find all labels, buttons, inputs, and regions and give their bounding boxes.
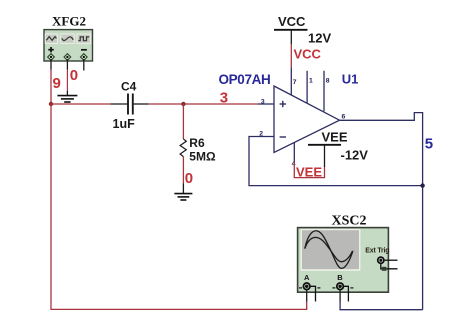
svg-text:U1: U1 [342, 72, 359, 87]
wire: pin 8 stub (blue) [323, 71, 325, 112]
net label VEE (red) [296, 164, 322, 179]
VEE value -12V [341, 148, 369, 163]
net label VCC (red) [294, 47, 322, 62]
wire: into op-amp + input (blue segment) [258, 103, 274, 105]
svg-text:C4: C4 [121, 80, 137, 94]
ground (under XFG2) [57, 96, 77, 102]
XFG2 terminal - (pin) [81, 54, 88, 61]
svg-text:VCC: VCC [294, 47, 322, 62]
wire: lead into ground (black) [66, 91, 68, 95]
pin number 6 [342, 113, 346, 120]
VCC power symbol [274, 14, 308, 30]
svg-text:9: 9 [53, 75, 61, 92]
svg-text:A: A [304, 273, 310, 282]
channel A + terminal [299, 283, 320, 290]
pin number 1 [309, 78, 313, 85]
OP07AH part label [219, 72, 271, 87]
R6 reference label [189, 136, 205, 150]
wire: junction to C4 left lead (red, horizontal) [51, 103, 111, 105]
wire: pin 7 stub (blue) [290, 67, 292, 95]
node junction at (51,104) net 9 [49, 102, 53, 106]
net label 3 [220, 90, 228, 107]
wire: C4 to op-amp + input, red, net 3 [149, 103, 259, 105]
svg-text:R6: R6 [189, 136, 205, 150]
svg-text:1: 1 [309, 78, 313, 85]
scope trace wave 2 [305, 237, 353, 261]
XFG2 terminal common [64, 54, 71, 61]
net label 5 [425, 136, 433, 153]
svg-text:VEE: VEE [322, 130, 348, 145]
net label 0 (under R6) [185, 170, 193, 187]
svg-text:B: B [337, 273, 343, 282]
capacitor C4 [111, 94, 149, 115]
svg-text:6: 6 [342, 113, 346, 120]
wire: net 9 bottom run (red) to channel A [51, 104, 307, 309]
svg-text:8: 8 [326, 78, 330, 85]
resistor R6 [180, 139, 186, 157]
svg-text:3: 3 [261, 99, 265, 106]
wire: pin 4 stub (blue) [293, 143, 295, 162]
wire: R6 to ground (red, net 0) [182, 157, 184, 184]
svg-text:5: 5 [425, 136, 433, 153]
Ext Trig terminal [378, 257, 384, 263]
C4 value label 1uF [113, 117, 136, 131]
wire: VCC rail stub (black) [290, 30, 292, 45]
op-amp - input mark [280, 136, 286, 138]
R6 value label 5MOhm [189, 150, 216, 164]
wire: XFG2 - terminal lead (black stub, open) [83, 59, 85, 71]
XFG2 minus mark [81, 49, 87, 51]
U1 reference label [342, 72, 359, 87]
ground (under R6) [174, 194, 192, 200]
XFG2 terminal + (pin) [48, 54, 55, 61]
wire: Ext Trig + stub [384, 259, 398, 261]
pin number 7 [293, 79, 297, 86]
wire: net 5 bottom run (blue) to channel B [340, 302, 423, 310]
channel B label [337, 273, 343, 282]
pin number 3 (+ input) [261, 99, 265, 106]
svg-text:XSC2: XSC2 [332, 214, 367, 229]
wire: feedback from - input (blue) [249, 137, 423, 186]
XFG2 plus mark [48, 47, 54, 52]
pin number 2 (- input) [259, 130, 263, 137]
wire: VCC net segment (red) [290, 44, 292, 67]
svg-text:12V: 12V [308, 31, 331, 46]
svg-text:7: 7 [293, 79, 297, 86]
C4 reference label [121, 80, 137, 94]
wire: lead into ground (black) [182, 184, 184, 194]
Ext Trig label [365, 247, 389, 254]
function generator XFG2 body [44, 30, 93, 61]
svg-text:-12V: -12V [341, 148, 369, 163]
wire: Ext Trig - stub [381, 263, 398, 270]
XFG2 square button [77, 34, 90, 43]
wire: VEE net U-shape (red) [294, 162, 324, 178]
wire: channel B lead (black) [339, 290, 341, 302]
wire: XFG2 + terminal to node, red, net 9 [50, 70, 52, 105]
svg-text:3: 3 [220, 90, 228, 107]
pin number 8 [326, 78, 330, 85]
svg-text:0: 0 [185, 170, 193, 187]
wire: channel B - stub [343, 286, 348, 301]
channel B + terminal [332, 283, 353, 290]
wire: output pin 6 (blue) with step [340, 113, 423, 310]
wire: channel A - stub [310, 286, 316, 301]
svg-text:VEE: VEE [296, 164, 322, 179]
svg-text:VCC: VCC [278, 14, 306, 29]
wire: pin 1 stub (blue) [306, 71, 308, 103]
svg-text:OP07AH: OP07AH [219, 72, 271, 87]
VEE power symbol [308, 130, 348, 145]
XFG2 triangle button [61, 34, 74, 43]
svg-text:XFG2: XFG2 [52, 14, 86, 29]
XFG2 sine button [45, 34, 57, 43]
wire: junction down to R6 (red) [182, 104, 184, 139]
XSC2 screen [301, 229, 361, 271]
svg-text:0: 0 [70, 67, 78, 84]
XFG2 label [52, 14, 86, 29]
node junction at (183.4,104) [181, 102, 185, 106]
wire: XFG2 + terminal lead (black stub) [50, 59, 52, 70]
channel A label [304, 273, 310, 282]
wire: VEE rail stub (black) [324, 145, 326, 167]
oscilloscope XSC2 body [298, 228, 389, 293]
wire: channel A lead (black) [306, 290, 308, 302]
node junction at (422.6,185.6) net 5 [420, 183, 424, 187]
svg-text:5MΩ: 5MΩ [189, 150, 216, 164]
scope trace wave 1 [305, 231, 353, 269]
svg-text:2: 2 [259, 130, 263, 137]
pin number 4 [292, 161, 296, 168]
wire: XFG2 common terminal lead (black stub) [66, 59, 68, 70]
wire: XFG2 common to ground, red, net 0 [66, 70, 68, 92]
VCC value 12V [308, 31, 331, 46]
svg-text:Ext Trig: Ext Trig [365, 247, 389, 254]
XSC2 label [332, 214, 367, 229]
net label 9 [53, 75, 61, 92]
op-amp U1 triangle [274, 86, 340, 153]
svg-text:1uF: 1uF [113, 117, 136, 131]
net label 0 (at XFG2 ground) [70, 67, 78, 84]
op-amp + input mark [280, 101, 286, 107]
